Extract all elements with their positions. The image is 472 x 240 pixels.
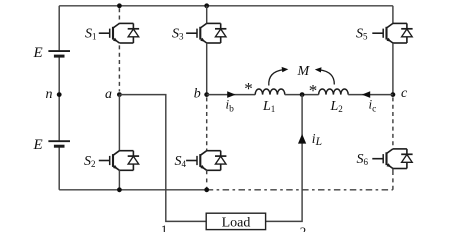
wire top-left rail corner / left rail upper segment (58, 6, 60, 51)
svg-text:2: 2 (300, 224, 307, 232)
wire left rail between batteries (58, 57, 60, 140)
inductor L1 (coupled winding) (255, 89, 285, 95)
arrow current i_L (pointing up) (298, 134, 306, 144)
svg-text:c: c (401, 86, 408, 101)
svg-text:Load: Load (222, 215, 251, 230)
wire top rail (59, 5, 393, 7)
wire node b to L1 (207, 94, 256, 96)
svg-text:*: * (309, 81, 318, 100)
node: bottom rail junction of leg 1 (117, 187, 122, 192)
battery E1 (upper source) (48, 51, 70, 56)
svg-text:1: 1 (161, 222, 168, 232)
node: top rail junction of leg 2 (204, 3, 209, 8)
inductor L2 (coupled winding) (319, 89, 349, 95)
wire node a to load (right then down) (119, 95, 206, 222)
transistor S2 (IGBT with antiparallel diode) (99, 151, 139, 171)
svg-text:a: a (105, 87, 112, 102)
wire left rail lower segment (58, 147, 60, 189)
wire center tap to load (down then left) (266, 95, 303, 222)
wire S3 emitter to node b (206, 43, 208, 95)
svg-text:E: E (33, 45, 43, 61)
transistor S3 (IGBT with antiparallel diode) (186, 23, 226, 43)
wire dashed node b to S4 collector (206, 97, 208, 150)
load box (206, 213, 265, 229)
svg-text:*: * (244, 79, 253, 98)
svg-text:E: E (33, 137, 43, 153)
node b (junction dot) (204, 92, 209, 97)
arrow arc left (L1 toward M) (269, 70, 284, 86)
svg-text:b: b (194, 87, 201, 102)
wire L2 to node c (348, 94, 393, 96)
wire S5 collector link (top-right corner) (392, 6, 394, 24)
wire dashed S1 collector link (118, 8, 120, 23)
wire dashed S4 emitter to bottom rail (206, 170, 208, 188)
wire L1 to L2 (through center tap) (285, 94, 319, 96)
node c (junction dot) (391, 92, 396, 97)
arrow arc right (L2 toward M) (320, 70, 335, 85)
wire S3 collector link (206, 6, 208, 24)
battery E2 (lower source) (48, 141, 70, 146)
wire dashed node c to S6 collector (392, 97, 394, 148)
wire bottom dash-dot rail (207, 189, 393, 191)
arrow current i_b (pointing right) (227, 91, 235, 98)
transistor S4 (IGBT with antiparallel diode) (186, 151, 226, 171)
svg-text:M: M (297, 64, 311, 79)
wire S6 emitter stub (392, 169, 394, 175)
transistor S1 (IGBT with antiparallel diode) (99, 23, 139, 43)
node: bottom rail junction of leg 2 (204, 187, 209, 192)
wire S5 emitter to node c (392, 43, 394, 95)
wire node a to S2 collector (118, 95, 120, 151)
transistor S5 (IGBT with antiparallel diode) (372, 23, 412, 43)
arrow current i_c (pointing left) (362, 91, 370, 98)
wire dashed S1 emitter to node a (118, 45, 120, 91)
node: top rail junction of leg 1 (117, 3, 122, 8)
node a (junction dot) (117, 92, 122, 97)
transistor S6 (IGBT with antiparallel diode) (372, 149, 412, 169)
wire dashed riser to S6 emitter (392, 175, 394, 190)
wire bottom rail (solid part) (59, 189, 207, 191)
wire S2 emitter to bottom rail (118, 170, 120, 190)
svg-text:n: n (46, 87, 53, 102)
node n (junction dot) (57, 92, 62, 97)
node: center tap junction (300, 92, 305, 97)
